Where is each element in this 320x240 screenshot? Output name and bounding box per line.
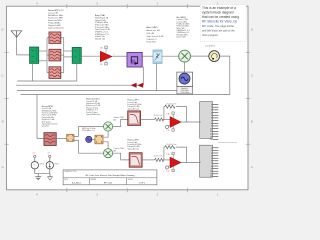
isolator IS1 arrows on L2	[131, 83, 144, 88]
wire long bus line L3	[17, 90, 177, 92]
switch SW1 (SP3T)	[30, 47, 39, 63]
wire M2 to filter LPF1	[113, 119, 128, 126]
wire LPF2 to resistor R3	[142, 159, 154, 161]
svg-text:and title block are part of th: and title block are part of the	[202, 29, 235, 33]
wire long bus line L4	[21, 94, 230, 96]
svg-text:RF Cafe: RF Cafe	[104, 182, 113, 184]
svg-text:Type=Bessel: Type=Bessel	[127, 108, 139, 110]
border zone letters right	[251, 28, 254, 170]
wire OP2 feedback loop up	[163, 147, 166, 160]
switch SW2 (SP3T)	[72, 47, 81, 63]
wire PD1 bottom branch to mixer M3	[74, 140, 104, 153]
svg-text:Atten (VAT): Atten (VAT)	[146, 26, 157, 29]
value label for mixer M3	[114, 148, 125, 152]
wire AT1 bottom pin down	[156, 64, 158, 91]
wire HY1 to M3 LO port	[103, 142, 108, 149]
wire SW2 to amplifier A1	[81, 55, 100, 57]
svg-text:that can be created using: that can be created using	[202, 15, 239, 19]
svg-text:AttenLo=1 dB: AttenLo=1 dB	[146, 29, 160, 32]
wire long bus line L1	[17, 80, 77, 82]
oscillator LO1 enclosure	[177, 72, 193, 87]
resistor R3	[155, 158, 164, 161]
svg-text:Type=Bessel: Type=Bessel	[127, 148, 139, 150]
filter LPF1 (lowpass with response curve)	[128, 111, 141, 126]
wire filter bank to switch SW2	[61, 38, 72, 73]
svg-text:1 OF 1: 1 OF 1	[138, 182, 145, 184]
svg-text:SHEET: SHEET	[128, 179, 133, 181]
wire PD1 top branch to mixer M2	[74, 127, 104, 137]
wire M3 to filter LPF2	[113, 153, 130, 160]
wire OP1 non-inverting input to bias bubble	[168, 125, 170, 126]
svg-text:14: 14	[210, 139, 212, 141]
op-amp OP1	[166, 112, 181, 132]
drawing sheet interior	[7, 6, 249, 190]
wire OP1 output to connector J1	[181, 121, 200, 123]
svg-text:B: B	[251, 119, 253, 123]
wire OP2 non-inverting input to bias bubble	[168, 165, 170, 166]
svg-text:This is an example of a: This is an example of a	[202, 6, 236, 10]
wire M1 LO pin down	[184, 62, 186, 72]
svg-text:RF Stencils for Visio, by: RF Stencils for Visio, by	[202, 20, 237, 24]
title block	[63, 170, 157, 185]
wire HY1 to M2 LO port	[103, 131, 108, 137]
value label block for attenuator AT1	[146, 26, 164, 43]
oscillator LO1	[179, 73, 190, 84]
svg-text:R=50 Ohm: R=50 Ohm	[154, 155, 163, 157]
svg-text:RF Cafe. The page border: RF Cafe. The page border	[202, 24, 234, 28]
svg-text:system block diagram: system block diagram	[202, 10, 234, 14]
border tick marks left	[4, 53, 8, 145]
svg-text:1: 1	[200, 162, 201, 164]
wire LO2 to hybrid HY1	[92, 138, 95, 140]
svg-text:1 D: 1 D	[166, 130, 170, 132]
wire R2 to OP1 output	[176, 107, 187, 122]
svg-text:S.R. dB: S.R. dB	[146, 33, 154, 35]
bias bubble B1	[163, 125, 169, 132]
mixer M3	[104, 149, 113, 158]
wire U1 to attenuator AT1, junction node down	[142, 55, 153, 57]
svg-text:1 D: 1 D	[166, 171, 170, 173]
value label block for mixer M1	[177, 17, 191, 38]
page margin background	[0, 0, 255, 198]
wire OP2 output to connector J2	[181, 162, 200, 164]
svg-text:Step Size=0.5 dB: Step Size=0.5 dB	[146, 35, 164, 38]
wire DET1 output right then down	[220, 56, 230, 95]
filter FL1 (bandpass)	[49, 32, 61, 43]
value label block for splitter PD1	[86, 99, 101, 116]
wire M1 to detector DET1	[191, 55, 209, 57]
connector J2	[200, 145, 219, 178]
wire A1 to limiter U1	[112, 55, 127, 57]
svg-text:R=500 Ohm: R=500 Ohm	[167, 144, 177, 146]
op-amp OP2	[166, 152, 181, 172]
svg-text:Idd=50 mA: Idd=50 mA	[95, 38, 105, 41]
svg-text:B: B	[2, 119, 4, 123]
border zone letters left	[2, 28, 5, 170]
filter FL4 (bandpass)	[44, 133, 56, 146]
wire antenna to switch SW1	[17, 37, 30, 55]
oscillator LO2	[86, 136, 92, 142]
oscillator LO1 label box	[177, 87, 193, 95]
value label block for amplifier A1	[95, 14, 111, 40]
wire R4 to OP2 output	[176, 147, 187, 162]
hybrid HY1 (90 deg)	[95, 135, 103, 144]
svg-text:Barrier dB: Barrier dB	[177, 36, 187, 38]
wire AT1 to mixer M1	[162, 55, 179, 57]
border zone numbers bottom	[36, 193, 219, 197]
svg-text:SRC1: SRC1	[40, 163, 45, 165]
wire L4 branch down to filter FL4	[37, 95, 44, 139]
wire connector J2 pin 1 stub	[218, 142, 237, 144]
note text box	[200, 5, 246, 42]
value label block for filter LPF1	[127, 100, 141, 111]
border tick marks top	[67, 4, 187, 8]
svg-text:Visio program.: Visio program.	[202, 33, 219, 37]
source I1	[46, 153, 59, 169]
wire FL4 to splitter PD1	[56, 137, 66, 139]
filter FL3 (bandpass)	[49, 67, 61, 79]
svg-text:Freq GHz: Freq GHz	[146, 40, 155, 43]
value label block for filter bank FL1-FL3	[48, 10, 65, 30]
value label for mixer M2	[114, 117, 125, 121]
connector J1	[200, 102, 219, 142]
resistor R4 (feedback)	[165, 146, 175, 149]
value label block for filter FL4	[42, 106, 58, 128]
ground GND2	[48, 177, 53, 180]
wire SW2 control pin down	[76, 63, 78, 81]
value label block for filter LPF2	[127, 140, 141, 151]
mixer M2	[104, 122, 113, 131]
wire SW1 control pin down	[31, 63, 33, 81]
ground GND1	[35, 177, 41, 180]
wire R1 to op-amp OP1 input	[163, 118, 171, 120]
detector DET1	[206, 44, 220, 61]
filter FL2 (bandpass)	[49, 49, 61, 61]
attenuator AT1	[153, 50, 162, 64]
wire R3 to op-amp OP2 input	[163, 159, 171, 161]
svg-text:RF Cafe Visio Stencils Site Sa: RF Cafe Visio Stencils Site Sample Block…	[86, 174, 135, 177]
border tick marks bottom	[67, 188, 187, 192]
svg-text:A: A	[251, 165, 253, 169]
wire OP1 feedback loop up	[163, 107, 166, 120]
svg-text:8-4-2014: 8-4-2014	[72, 182, 82, 184]
svg-text:P=10 dBm: P=10 dBm	[180, 92, 189, 94]
value label for oscillator LO2	[82, 128, 95, 132]
svg-text:SRC2: SRC2	[55, 163, 60, 165]
svg-text:Qu=200: Qu=200	[42, 126, 50, 128]
antenna ANT1	[11, 31, 22, 38]
border zone numbers top	[36, 1, 219, 5]
limiter U1 (purple block)	[127, 53, 142, 68]
svg-text:P=10 dBm T=1: P=10 dBm T=1	[82, 130, 95, 132]
wire LPF1 to resistor R1	[141, 118, 155, 120]
svg-text:R=500 Ohm: R=500 Ohm	[167, 103, 177, 105]
wire long bus line L2	[16, 84, 143, 86]
svg-text:1 D: 1 D	[100, 64, 104, 66]
border tick marks right	[246, 53, 250, 145]
svg-text:Type=Chebyshev: Type=Chebyshev	[48, 28, 65, 30]
wire SW1 outputs to filter bank bus	[39, 38, 49, 73]
splitter PD1 (power divider)	[67, 135, 74, 142]
svg-text:Det (DET1): Det (DET1)	[206, 44, 216, 47]
wire sources to grounds	[35, 169, 50, 174]
mixer M1	[179, 50, 191, 62]
svg-text:A: A	[2, 165, 4, 169]
amplifier A1	[100, 46, 116, 66]
source V1	[31, 153, 44, 170]
bias bubble B2	[163, 166, 169, 173]
svg-text:12: 12	[210, 176, 212, 178]
resistor R2 (feedback)	[165, 105, 175, 108]
svg-text:Vctl=0-5 V: Vctl=0-5 V	[146, 38, 157, 41]
svg-text:R=50 Ohm: R=50 Ohm	[154, 115, 163, 117]
svg-text:1: 1	[200, 122, 201, 124]
wire U1 lower pin down to isolator line	[142, 67, 144, 86]
svg-text:Type=Wilkinson: Type=Wilkinson	[86, 114, 100, 116]
resistor R1	[155, 118, 164, 121]
filter LPF2 (lowpass with response curve)	[129, 153, 142, 168]
